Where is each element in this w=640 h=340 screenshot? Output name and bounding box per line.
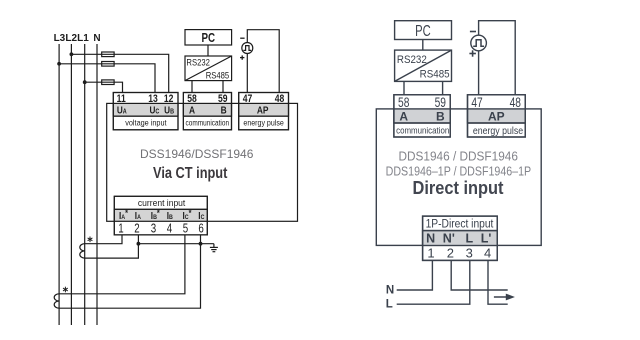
wire terminal 1 to CT1 top xyxy=(85,235,122,244)
pulse source G1 xyxy=(242,43,253,54)
svg-text:L: L xyxy=(386,299,393,311)
svg-text:DSS1946/DSSF1946: DSS1946/DSSF1946 xyxy=(140,147,254,161)
PC box U-PC right xyxy=(395,21,452,40)
wire terminal 4 to load L out xyxy=(488,260,508,304)
polarity mark CT1 xyxy=(88,237,93,243)
wire PC to RS converter xyxy=(207,45,209,56)
junction on L1 xyxy=(83,80,87,84)
minus polarity label xyxy=(240,37,244,39)
svg-text:2: 2 xyxy=(447,246,454,261)
svg-text:N: N xyxy=(93,33,100,44)
load arrow xyxy=(494,294,515,301)
wire PC to RS converter right xyxy=(422,40,424,51)
energy pulse terminal block right xyxy=(468,95,526,137)
communication terminal block right xyxy=(394,95,450,137)
svg-text:58: 58 xyxy=(187,93,197,105)
wire terminal 5 to CT2 top xyxy=(59,235,185,294)
svg-text:5: 5 xyxy=(183,222,188,236)
svg-text:L': L' xyxy=(481,232,492,246)
svg-text:59: 59 xyxy=(435,94,447,110)
svg-text:DDS1946 / DDSF1946: DDS1946 / DDSF1946 xyxy=(399,149,518,164)
svg-text:AP: AP xyxy=(488,109,505,123)
wire L supply to terminal 3 xyxy=(397,260,470,304)
junction on L3 xyxy=(57,62,61,66)
junction terminal 6 node xyxy=(199,242,203,246)
PC box U-PC xyxy=(185,30,232,46)
svg-text:RS232: RS232 xyxy=(186,57,210,68)
wire L1 to terminal 11 xyxy=(85,82,123,92)
svg-text:48: 48 xyxy=(510,94,522,110)
svg-text:1: 1 xyxy=(118,222,123,236)
svg-text:PC: PC xyxy=(415,21,431,40)
CT2 current transformer on L3 xyxy=(54,294,59,308)
svg-text:N': N' xyxy=(443,232,455,246)
svg-text:energy pulse: energy pulse xyxy=(243,118,283,128)
plus polarity label xyxy=(240,55,244,59)
minus polarity label right xyxy=(470,31,476,33)
svg-text:current input: current input xyxy=(138,198,186,209)
svg-text:communication: communication xyxy=(396,125,449,136)
svg-text:RS232: RS232 xyxy=(397,54,427,66)
wire converter to terminal 59 xyxy=(222,81,224,93)
polarity mark CT2 xyxy=(63,287,68,293)
wire pulse source bottom to terminal 47 xyxy=(246,54,248,93)
wire L3 line xyxy=(58,44,60,325)
svg-text:1: 1 xyxy=(427,246,434,261)
wire terminal 6 to CT2 bottom xyxy=(59,235,200,308)
wire ground bus xyxy=(138,243,214,245)
svg-text:B: B xyxy=(436,109,445,123)
energy pulse terminal block xyxy=(239,93,289,130)
wire N supply to terminal 1 xyxy=(397,260,433,290)
svg-text:47: 47 xyxy=(243,93,253,105)
ground symbol xyxy=(210,244,218,252)
fuse F3 xyxy=(102,80,114,85)
wire pulse source top to terminal 48 right xyxy=(479,21,516,95)
svg-text:AP: AP xyxy=(257,105,269,117)
wire CT1 bottom to terminal 2 xyxy=(85,244,139,258)
svg-text:voltage input: voltage input xyxy=(125,118,167,128)
svg-text:1P-Direct input: 1P-Direct input xyxy=(426,218,494,231)
wire pulse source bottom to terminal 47 right xyxy=(478,51,480,95)
svg-text:RS485: RS485 xyxy=(206,70,230,81)
svg-text:L: L xyxy=(465,232,473,246)
fuse F2 xyxy=(102,62,114,67)
svg-text:6: 6 xyxy=(198,222,203,236)
RS232/RS485 converter xyxy=(185,56,232,81)
svg-text:L1: L1 xyxy=(77,33,89,44)
svg-text:L3: L3 xyxy=(54,33,66,44)
CT1 current transformer on L1 xyxy=(80,244,85,258)
wire converter to terminal 58 xyxy=(191,81,193,93)
svg-text:Via CT input: Via CT input xyxy=(153,165,227,183)
svg-text:47: 47 xyxy=(471,94,483,110)
pulse source G2 xyxy=(471,35,487,51)
junction on L2 xyxy=(70,52,74,56)
wire converter to terminal 59 right xyxy=(442,81,444,94)
wire L1 line xyxy=(84,44,86,325)
svg-text:3: 3 xyxy=(466,246,473,261)
wire converter to terminal 58 right xyxy=(403,81,405,94)
svg-text:58: 58 xyxy=(398,94,410,110)
svg-text:N: N xyxy=(426,232,435,246)
svg-text:A: A xyxy=(399,109,408,123)
svg-text:2: 2 xyxy=(134,222,139,236)
communication terminal block xyxy=(183,93,231,130)
svg-text:energy pulse: energy pulse xyxy=(473,124,523,136)
svg-text:4: 4 xyxy=(167,222,173,236)
RS232/RS485 converter right xyxy=(395,50,452,81)
svg-text:B: B xyxy=(221,105,227,117)
svg-text:48: 48 xyxy=(275,93,285,105)
1P-Direct input terminal block xyxy=(423,216,498,260)
svg-text:3: 3 xyxy=(151,222,156,236)
wire L2 to terminal 12 xyxy=(71,54,168,92)
wire L3 to terminal 13 xyxy=(59,64,155,93)
svg-text:communication: communication xyxy=(186,118,230,128)
svg-text:4: 4 xyxy=(484,246,491,261)
svg-text:L2: L2 xyxy=(65,33,77,44)
wire N line xyxy=(96,44,98,325)
wire terminal 2 to load N out xyxy=(451,260,508,290)
svg-text:N: N xyxy=(386,285,394,297)
meter body DSS1946 xyxy=(107,103,298,221)
wire pulse source top to terminal 48 xyxy=(247,30,279,93)
svg-text:Direct input: Direct input xyxy=(412,177,503,198)
wire terminal 2 stub xyxy=(137,235,139,244)
plus polarity label right xyxy=(469,50,476,56)
junction terminal 2 node xyxy=(137,242,141,246)
svg-text:PC: PC xyxy=(202,32,216,46)
fuse F1 xyxy=(102,52,114,57)
voltage input terminal block xyxy=(113,93,178,130)
svg-text:59: 59 xyxy=(218,93,228,105)
svg-text:RS485: RS485 xyxy=(420,69,450,81)
wire L2 line xyxy=(70,44,72,325)
current input terminal block xyxy=(114,196,207,235)
meter body DDS1946 xyxy=(376,109,541,246)
svg-text:A: A xyxy=(189,105,195,117)
